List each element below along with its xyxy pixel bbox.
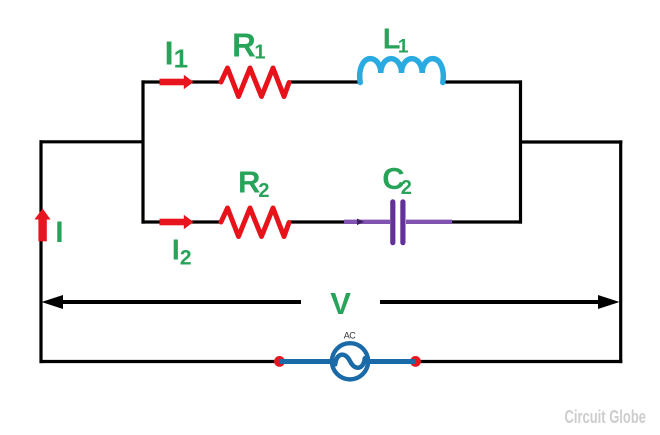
svg-text:Circuit Globe: Circuit Globe	[565, 407, 647, 427]
node dot left of AC source	[274, 356, 285, 367]
svg-text:I1: I1	[165, 34, 189, 73]
wire AC blue left lead	[280, 359, 333, 364]
resistor R2	[221, 208, 289, 237]
svg-text:V: V	[330, 286, 351, 321]
inductor L1	[360, 59, 444, 83]
AC source circle	[332, 343, 368, 379]
capacitor C2 plate 2	[400, 202, 405, 243]
wire middle branch right segment	[448, 220, 522, 223]
wire inner left vertical	[141, 80, 144, 223]
wire bottom right segment	[416, 360, 622, 363]
capacitor C2 lead left	[344, 220, 390, 224]
node dot right of AC source	[410, 356, 421, 367]
svg-text:AC: AC	[344, 331, 356, 341]
wire right connector horizontal	[521, 140, 623, 143]
svg-text:I: I	[55, 216, 63, 249]
wire inner right vertical	[519, 80, 522, 223]
wire top branch left segment	[142, 80, 223, 83]
svg-text:I2: I2	[172, 235, 192, 270]
voltage arrow V left segment with left arrowhead	[42, 295, 302, 309]
wire outer right vertical	[619, 140, 622, 363]
wire AC blue right lead	[368, 359, 416, 364]
current arrow I2	[160, 215, 194, 230]
wire middle branch left segment	[142, 220, 223, 223]
capacitor C2 lead right	[406, 220, 452, 224]
wire left connector horizontal	[40, 140, 144, 143]
resistor R1	[221, 68, 289, 97]
voltage arrow V right segment with right arrowhead	[380, 295, 620, 309]
wire top branch right segment	[442, 80, 522, 83]
AC source sine wave	[335, 355, 365, 368]
wire middle branch center segment	[288, 220, 348, 223]
svg-text:L1: L1	[383, 24, 409, 58]
svg-text:C2: C2	[382, 161, 412, 199]
svg-text:R2: R2	[238, 165, 270, 203]
current arrow I1	[160, 75, 194, 90]
capacitor C2 plate 1	[390, 202, 395, 243]
wire outer left vertical	[39, 140, 42, 363]
wire bottom left segment	[40, 360, 280, 363]
capacitor C2 small arrow on lead	[357, 219, 364, 226]
wire top branch middle segment	[288, 80, 361, 83]
current arrow I (left, pointing up)	[34, 209, 50, 242]
svg-text:R1: R1	[232, 27, 265, 64]
